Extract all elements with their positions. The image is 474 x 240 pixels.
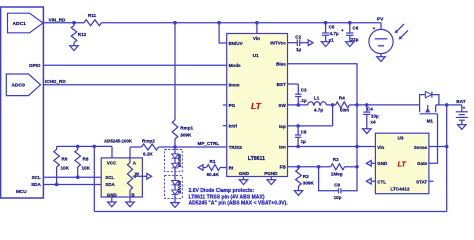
pin PG: [229, 103, 236, 108]
ground below pin B: [126, 202, 134, 207]
light arrow 1 into PV: [395, 24, 404, 33]
wire output node Bias-to-FB vertical: [356, 105, 358, 167]
svg-text:10K: 10K: [61, 165, 70, 170]
wire MP_CTRL to TR/SS pin: [175, 146, 227, 148]
junction Isn / C9: [296, 145, 300, 149]
pin A of AD5245: [133, 160, 137, 165]
wire INTVcc to C2: [288, 42, 298, 44]
junction rail / Vin pin: [255, 21, 259, 25]
MCU block: [1, 7, 44, 198]
wire Sense pin to VBAT: [429, 146, 447, 148]
capacitor C8 10p (feedforward): [319, 167, 357, 200]
wire Isn pin to U3 Vin: [288, 146, 376, 148]
resistor Rmp1 309K: [172, 120, 193, 139]
wire M1 drain to BAT node: [436, 104, 447, 106]
svg-text:BAV99: BAV99: [177, 180, 182, 194]
wire EN/UV to rail: [219, 23, 227, 43]
stub STAT pin: [429, 180, 434, 182]
svg-text:Rmp2: Rmp2: [142, 139, 155, 144]
junction R2 / C8 / output: [355, 165, 359, 169]
svg-text:309K: 309K: [303, 181, 315, 186]
svg-text:R1: R1: [210, 159, 216, 164]
svg-text:R12: R12: [78, 32, 87, 37]
junction rail / C6: [348, 21, 352, 25]
pin STAT of U3: [416, 179, 427, 184]
net label BAT: [456, 99, 465, 104]
port arrow GND pin of U3: [366, 161, 375, 167]
wire GPIO from MCU to Mode: [43, 64, 226, 66]
svg-text:C9: C9: [301, 129, 307, 134]
pin PGND of U1: [264, 171, 278, 176]
svg-text:SDA: SDA: [31, 182, 41, 187]
capacitor C3 0.1u: [295, 84, 307, 105]
svg-text:LT: LT: [398, 160, 407, 169]
svg-text:SCL: SCL: [32, 175, 41, 180]
svg-text:R6: R6: [62, 157, 68, 162]
wire MP_CTRL node down to D1: [174, 147, 176, 154]
svg-text:ICHG_RD: ICHG_RD: [45, 79, 66, 84]
resistor R12: [71, 23, 86, 46]
wire L1 to R4: [326, 104, 335, 106]
svg-text:50m: 50m: [340, 108, 349, 113]
svg-text:VIN_RD: VIN_RD: [49, 18, 67, 23]
ground below battery: [458, 125, 466, 130]
net label VIN_RD: [49, 18, 67, 23]
wire VCC rail into AD5245 VCC pin: [111, 146, 113, 158]
wire R4 to M1 source: [350, 104, 420, 106]
pin W of AD5245: [135, 172, 140, 177]
svg-text:4.7µ: 4.7µ: [314, 108, 323, 113]
regulator U1 LT8611: [227, 34, 288, 177]
resistor R2 1Meg: [319, 157, 357, 177]
svg-text:M1: M1: [427, 118, 434, 123]
junction rail / C5: [324, 21, 328, 25]
net label MP_CTRL: [198, 141, 220, 146]
ground below C5: [321, 42, 329, 47]
svg-text:Gate: Gate: [417, 161, 428, 166]
svg-text:GND: GND: [107, 192, 118, 197]
junction VIN_RD / R12: [72, 21, 76, 25]
port ADC0: [6, 74, 40, 96]
svg-text:2.6V Diode Clamp protects:: 2.6V Diode Clamp protects:: [189, 188, 255, 194]
svg-text:U1: U1: [253, 53, 259, 59]
svg-text:Rt: Rt: [229, 165, 234, 170]
annotation note diode clamp: [189, 188, 289, 206]
svg-text:BST: BST: [277, 82, 286, 87]
pin Vin (top): [253, 36, 260, 41]
pin Isn: [279, 144, 286, 149]
wire D2 to ground: [174, 194, 176, 202]
wire Isp pin to sense tap: [288, 125, 333, 127]
svg-text:10K: 10K: [82, 165, 91, 170]
net label GPIO: [29, 63, 41, 68]
wire Isp tap up to R4 left: [332, 105, 334, 126]
svg-text:BAT: BAT: [456, 99, 465, 104]
svg-text:CTL: CTL: [377, 179, 386, 184]
svg-text:C5: C5: [329, 24, 335, 29]
stub Ictrl pin: [223, 125, 227, 127]
svg-text:C6: C6: [352, 26, 358, 31]
wire FB pin to divider: [288, 166, 319, 168]
solar cell source PV: [369, 26, 393, 54]
resistor R6 10K: [54, 146, 70, 184]
body diode of M1: [420, 91, 439, 105]
svg-text:SCL: SCL: [105, 175, 114, 180]
junction MP_CTRL node: [173, 145, 177, 149]
wire SCL from MCU to AD5245: [43, 176, 101, 178]
svg-text:SDA: SDA: [105, 182, 115, 187]
wire GND pin to ground: [243, 177, 245, 180]
svg-text:C8: C8: [334, 182, 340, 187]
svg-text:1µ: 1µ: [301, 139, 307, 144]
capacitor C5 4.7u x1: [322, 23, 339, 43]
pin Bias: [276, 62, 286, 67]
svg-text:STAT: STAT: [416, 179, 427, 184]
pin VCC of AD5245: [107, 161, 117, 166]
wire GND pin to ground: [111, 197, 113, 202]
ground below C6: [346, 42, 354, 47]
potentiometer element of AD5245: [127, 158, 142, 190]
pin Sense of U3: [414, 145, 428, 150]
inductor L1 4.7u: [308, 96, 326, 113]
junction Isn / output node: [355, 145, 359, 149]
diode D2 BAV99 (bottom pair): [165, 176, 183, 199]
pin BST: [277, 82, 286, 87]
svg-text:Isn: Isn: [279, 144, 286, 149]
pin GND of U3: [377, 161, 388, 166]
junction VCC rail / VBAT drop: [93, 145, 97, 149]
pin FB: [280, 165, 287, 170]
wire VIN_RD rail to PV: [102, 22, 382, 24]
svg-text:4.7µ: 4.7µ: [330, 31, 339, 36]
svg-text:10µ: 10µ: [371, 113, 379, 118]
ground below R12: [70, 46, 78, 51]
wire Bias to output node: [288, 64, 358, 105]
junction VCC rail / R8: [76, 145, 80, 149]
pin GND of AD5245: [107, 192, 118, 197]
wire VBAT up right side: [446, 105, 448, 211]
pin SW: [278, 103, 286, 108]
wire PGND pin to ground: [270, 177, 272, 180]
svg-text:ADC0: ADC0: [12, 82, 26, 88]
junction output / Bias: [355, 103, 359, 107]
ground below PV: [377, 57, 385, 62]
svg-text:60.4K: 60.4K: [207, 172, 220, 177]
svg-text:L1: L1: [314, 96, 320, 101]
junction rail / EN-UV branch: [217, 21, 221, 25]
port arrow CTL pin of U3: [366, 178, 375, 184]
svg-text:ADC1: ADC1: [13, 21, 27, 27]
wire rail down to Rmp1: [174, 23, 176, 120]
pin Vin of U3: [377, 145, 384, 150]
net label ICHG_RD: [45, 79, 66, 84]
svg-text:Bias: Bias: [276, 62, 286, 67]
net label SCL (MCU): [32, 175, 41, 180]
svg-text:R2: R2: [333, 157, 339, 162]
svg-text:MP_CTRL: MP_CTRL: [198, 141, 220, 146]
controller U3 LTC4412: [375, 133, 429, 194]
svg-text:R11: R11: [88, 13, 97, 18]
svg-text:R3: R3: [303, 174, 309, 179]
svg-text:309K: 309K: [180, 133, 192, 138]
stub PG pin: [223, 104, 227, 106]
pin CTL of U3: [377, 179, 386, 184]
wire Rmp1 to MP_CTRL node: [174, 139, 176, 147]
svg-text:Isp: Isp: [279, 124, 286, 129]
svg-text:x4: x4: [370, 119, 376, 124]
svg-text:LT: LT: [251, 101, 262, 111]
svg-text:22µ: 22µ: [351, 37, 359, 42]
diode D1 BAV99 (top pair): [165, 150, 183, 172]
svg-text:INTVcc: INTVcc: [270, 41, 286, 46]
resistor R8 10K: [75, 146, 91, 177]
svg-text:AD5245 "A" pin (ABS MAX < VBA: AD5245 "A" pin (ABS MAX < VBAT+0.3V).: [189, 201, 289, 207]
ground below GND pin: [239, 180, 247, 185]
svg-text:PGND: PGND: [264, 171, 278, 176]
svg-text:.1µ: .1µ: [300, 98, 307, 103]
wire Gate pin to M1 gate: [429, 114, 438, 164]
wire pot B to ground: [129, 190, 131, 202]
digital pot U2 AD5245-100K: [101, 139, 142, 197]
ground below R3: [294, 191, 302, 196]
svg-text:Rmp1: Rmp1: [180, 125, 193, 130]
junction rail / Rmp1 branch: [173, 21, 177, 25]
ground below AD5245 GND: [108, 202, 116, 207]
junction Isp / C9: [296, 124, 300, 128]
svg-text:Sense: Sense: [414, 145, 428, 150]
svg-text:GND: GND: [239, 171, 250, 176]
svg-text:PG: PG: [229, 103, 236, 108]
svg-text:+: +: [341, 28, 344, 33]
pin Mode: [229, 63, 241, 68]
junction Isp tap: [331, 103, 335, 107]
wire PV to ground: [380, 54, 382, 57]
svg-text:Ictrl: Ictrl: [229, 124, 237, 129]
logo LT inside U1: [251, 101, 262, 111]
wire between diode pairs: [174, 168, 176, 181]
port arrow INTVCC net: [308, 40, 313, 46]
wire BAT node to battery: [447, 104, 462, 106]
wire SW pin to L1: [288, 104, 308, 106]
junction FB / R3: [297, 165, 301, 169]
light arrow 2 into PV: [399, 30, 408, 39]
junction SW / C3: [297, 103, 301, 107]
svg-text:6.2K: 6.2K: [143, 151, 153, 156]
svg-text:R8: R8: [83, 157, 89, 162]
svg-text:FB: FB: [280, 165, 287, 170]
svg-text:Vin: Vin: [253, 36, 260, 41]
battery V1: [456, 105, 468, 125]
wire VIN_RD from ADC1 to R11: [43, 22, 84, 24]
junction BAT node: [445, 103, 449, 107]
net label SDA (MCU): [31, 182, 41, 187]
transistor M1 PMOS: [420, 105, 438, 123]
pin Gate of U3: [417, 161, 428, 166]
svg-text:GPIO: GPIO: [29, 63, 41, 68]
resistor Rmp2 6.2K: [130, 139, 175, 157]
svg-text:R4: R4: [339, 96, 345, 101]
pin B of AD5245: [131, 192, 135, 197]
svg-text:MCU: MCU: [16, 189, 27, 194]
svg-text:Vin: Vin: [377, 145, 384, 150]
svg-text:+: +: [373, 26, 376, 31]
logo LT inside U3: [398, 160, 407, 169]
wire ICHG_RD from MCU to Imon: [43, 84, 226, 86]
wire BST stub: [288, 83, 299, 85]
resistor R11: [84, 13, 102, 26]
svg-text:Mode: Mode: [229, 63, 241, 68]
pin INTVcc: [270, 41, 286, 46]
wire C2 to INTVCC port: [300, 42, 309, 44]
capacitor C2 1u: [295, 34, 301, 52]
resistor R4 50m (sense): [336, 96, 350, 113]
svg-text:10p: 10p: [334, 195, 342, 200]
wire SDA from MCU to AD5245: [43, 184, 101, 186]
resistor R3 309K: [296, 167, 315, 191]
svg-text:1Meg: 1Meg: [331, 172, 343, 177]
svg-text:1µ: 1µ: [296, 47, 302, 52]
port arrow W wiper output: [142, 174, 151, 180]
junction Sense / VBAT: [445, 145, 449, 149]
pin SDA of AD5245: [105, 182, 115, 187]
pin Rt: [229, 165, 234, 170]
svg-text:SW: SW: [278, 103, 286, 108]
capacitor C6 22u (polarized): [341, 23, 359, 42]
ground below BAV99: [171, 203, 179, 208]
svg-text:VCC: VCC: [107, 161, 117, 166]
svg-text:Imon: Imon: [229, 83, 240, 88]
port ADC1: [8, 13, 44, 33]
pin TR/SS: [229, 145, 243, 150]
pin EN/UV: [229, 41, 244, 46]
wire VBAT bottom rail: [94, 211, 446, 213]
svg-text:GND: GND: [377, 161, 388, 166]
svg-text:TR/SS: TR/SS: [229, 145, 243, 150]
pin GND of U1: [239, 171, 250, 176]
pin SCL of AD5245: [105, 175, 114, 180]
svg-text:LT8611 TRSS pin (4V ABS MAX): LT8611 TRSS pin (4V ABS MAX): [189, 194, 265, 200]
junction R8 / SCL: [76, 175, 80, 179]
svg-text:C2: C2: [295, 34, 301, 39]
wire VBAT down left side: [93, 146, 95, 211]
svg-text:U3: U3: [398, 136, 404, 141]
pin Imon: [229, 83, 240, 88]
junction R6 / SDA: [55, 183, 59, 187]
svg-text:BAV99: BAV99: [177, 153, 182, 167]
pin Ictrl: [229, 124, 237, 129]
svg-text:C3: C3: [301, 88, 307, 93]
svg-text:LT8611: LT8611: [248, 156, 265, 162]
junction FB / C8: [317, 165, 321, 169]
svg-text:EN/UV: EN/UV: [229, 41, 244, 46]
capacitor C4 10u x4: [363, 105, 379, 129]
net label PV: [377, 16, 384, 22]
svg-text:LTC4412: LTC4412: [390, 187, 410, 192]
resistor R1 60.4K: [203, 159, 227, 177]
pin Isp: [279, 124, 286, 129]
port arrow TRSS net: [198, 165, 203, 171]
junction output / C4: [365, 103, 369, 107]
ground below PGND pin: [267, 180, 275, 185]
capacitor C9 1u: [295, 126, 307, 147]
svg-text:AD5245-100K: AD5245-100K: [104, 139, 133, 144]
svg-text:PV: PV: [377, 16, 384, 22]
wire VCC rail of AD5245: [57, 145, 112, 147]
svg-text:C4: C4: [367, 107, 373, 112]
wire Rmp2 to AD5245 pin A: [129, 147, 131, 158]
wire Vin pin to rail: [256, 23, 258, 34]
wire rail to PV source: [380, 23, 382, 30]
ground below C4: [363, 129, 371, 134]
